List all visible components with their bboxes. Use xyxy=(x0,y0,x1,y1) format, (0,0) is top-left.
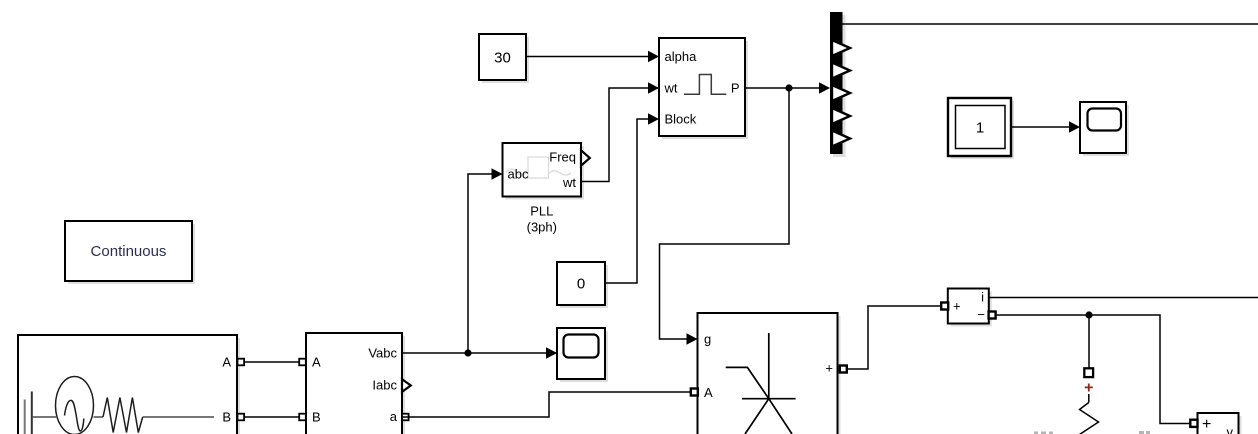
wire junction up to PLL abc xyxy=(468,174,497,353)
svg-text:+: + xyxy=(1202,416,1211,433)
svg-text:Continuous: Continuous xyxy=(91,243,167,260)
converter port A xyxy=(691,389,698,396)
synchronized pulse generator block xyxy=(659,38,748,139)
powergui block "Continuous" xyxy=(65,221,195,284)
faint clipped label under current loop xyxy=(1034,431,1150,434)
svg-text:a: a xyxy=(390,409,398,424)
current measurement - port xyxy=(989,312,996,319)
svg-text:Block: Block xyxy=(665,112,697,127)
Iabc unconnected output chevron xyxy=(402,379,411,392)
svg-text:30: 30 xyxy=(494,50,511,67)
svg-text:B: B xyxy=(312,410,321,425)
measurement port B xyxy=(299,414,306,421)
source icon: wire to port B xyxy=(143,416,214,418)
scope1 xyxy=(557,328,608,382)
arrowhead into alpha xyxy=(648,51,659,63)
source icon: resistor zigzag xyxy=(103,398,143,433)
svg-text:+: + xyxy=(953,299,961,314)
svg-text:A: A xyxy=(312,355,321,370)
PLL Freq unconnected chevron xyxy=(581,150,590,165)
svg-text:(3ph): (3ph) xyxy=(527,220,557,235)
svg-text:alpha: alpha xyxy=(665,49,698,64)
arrowhead into scope2 xyxy=(1069,121,1080,133)
svg-text:0: 0 xyxy=(577,276,585,293)
svg-text:A: A xyxy=(704,385,713,400)
svg-text:Iabc: Iabc xyxy=(372,378,397,393)
source icon: AC source circle xyxy=(56,377,94,434)
wire i output xyxy=(989,297,1258,299)
three-phase source subsystem block xyxy=(18,335,240,434)
source icon: wire circle to resistor xyxy=(94,416,104,418)
wire - to RL branch and voltage measurement xyxy=(995,315,1190,424)
wire A to A xyxy=(244,361,299,363)
measurement port a output xyxy=(402,414,409,421)
thyristor icon xyxy=(726,333,796,434)
current measurement block xyxy=(948,289,992,327)
wire P down to g input xyxy=(660,88,790,339)
svg-text:−: − xyxy=(977,307,985,322)
svg-text:+: + xyxy=(825,361,833,376)
three-phase V-I measurement block xyxy=(306,333,405,434)
voltage measurement block xyxy=(1198,413,1242,434)
constant block 1 xyxy=(948,98,1014,159)
wire 1 to scope2 xyxy=(1011,126,1071,128)
junction node P xyxy=(785,84,792,91)
junction node Vabc xyxy=(464,349,471,356)
converter port + output xyxy=(840,366,847,373)
wire P to demux xyxy=(745,87,824,89)
measurement port A xyxy=(299,359,306,366)
svg-text:i: i xyxy=(981,290,984,305)
svg-text:wt: wt xyxy=(664,81,678,96)
constant block 30 xyxy=(479,34,529,83)
arrowhead into wt xyxy=(648,82,659,94)
pulse icon xyxy=(684,75,726,95)
wire 0 to Block input xyxy=(605,119,650,283)
arrowhead into demux xyxy=(819,82,830,94)
svg-text:P: P xyxy=(731,81,740,96)
source icon: sine squiggle xyxy=(65,400,84,431)
svg-text:Freq: Freq xyxy=(549,150,576,165)
wire B to B xyxy=(244,416,299,418)
junction node load xyxy=(1085,311,1092,318)
svg-text:Vabc: Vabc xyxy=(368,346,397,361)
source port B xyxy=(238,414,245,421)
current measurement + port xyxy=(941,303,948,310)
svg-text:+: + xyxy=(1084,380,1093,397)
svg-text:1: 1 xyxy=(976,120,984,137)
source port A xyxy=(238,359,245,366)
thyristor converter block xyxy=(698,313,841,434)
svg-text:abc: abc xyxy=(508,167,529,182)
arrowhead into Block xyxy=(648,113,659,125)
arrowhead into PLL abc xyxy=(492,168,503,180)
arrowhead into g xyxy=(687,333,698,345)
svg-text:g: g xyxy=(704,332,711,347)
svg-text:v: v xyxy=(1227,425,1234,434)
PLL (3ph) block xyxy=(503,143,585,200)
wire PLL wt to pulse wt xyxy=(581,88,650,182)
wire 30 to alpha xyxy=(526,56,650,58)
scope2 xyxy=(1080,102,1129,156)
svg-text:B: B xyxy=(222,410,231,425)
arrowhead into scope1 xyxy=(546,347,557,359)
svg-text:wt: wt xyxy=(562,175,576,190)
demux unconnected output chevrons xyxy=(832,40,850,56)
wire converter + to current measurement xyxy=(847,306,941,369)
PLL faint icon xyxy=(507,157,572,178)
series RLC branch xyxy=(1080,368,1099,434)
source icon: wire to AC source xyxy=(32,416,56,418)
voltage measurement + port xyxy=(1190,420,1197,427)
wire a to converter A xyxy=(402,392,691,417)
wire junction down to RL branch xyxy=(1088,315,1090,368)
constant block 0 xyxy=(557,262,608,308)
demux block xyxy=(830,12,846,157)
demux output 1 wire xyxy=(843,23,1258,25)
wire Vabc to scope and junction xyxy=(402,352,556,354)
svg-text:PLL: PLL xyxy=(530,204,553,219)
svg-text:A: A xyxy=(222,355,231,370)
source icon: capacitor bars xyxy=(31,392,33,434)
